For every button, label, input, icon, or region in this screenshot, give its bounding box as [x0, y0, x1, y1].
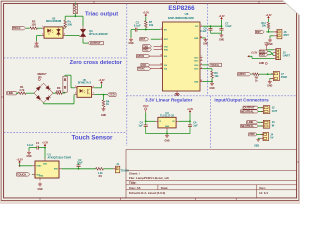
wire LINE to J3 — [258, 121, 264, 123]
svg-text:Rev:: Rev: — [259, 186, 266, 190]
svg-text:GND: GND — [101, 115, 106, 117]
svg-text:GND: GND — [194, 81, 199, 83]
svg-text:GND: GND — [39, 175, 44, 177]
wire opto emitter to node — [94, 94, 103, 96]
svg-text:AT42QT1010-TSHR: AT42QT1010-TSHR — [48, 156, 72, 160]
wire TXD cross to pin3 — [268, 51, 270, 53]
ground below J6 — [269, 38, 271, 40]
svg-text:RST: RST — [284, 33, 290, 37]
wire IO14 to TOUCH label — [203, 64, 209, 66]
svg-text:VDD: VDD — [249, 133, 254, 136]
global label NEUTRAL conn2 — [241, 124, 259, 127]
svg-text:6: 6 — [64, 26, 65, 28]
border tick bottom 1 — [39, 198, 41, 201]
pin stub U2 pin2 — [42, 35, 44, 37]
wire U1 SNS to R4 — [62, 168, 96, 170]
wire R7 to EN node — [145, 28, 147, 30]
connector J2 body — [263, 106, 270, 114]
bridge rectifier D1 diamond — [34, 83, 53, 103]
svg-text:IO0: IO0 — [164, 56, 167, 58]
svg-text:200: 200 — [68, 22, 73, 26]
title block line 3 — [126, 184, 297, 186]
U2 LED symbol — [48, 29, 51, 32]
bridge pin1 marker — [38, 78, 40, 80]
wire TRIAC to chip — [150, 68, 163, 70]
wire ZCD to chip — [149, 64, 162, 66]
global label ZCD — [107, 93, 116, 96]
diode pair D2 body — [63, 76, 67, 92]
wire NEUTRAL to J3 — [258, 125, 264, 127]
section divider horizontal esp/regulator (y=95.8) — [127, 95, 297, 97]
svg-text:0.1uF: 0.1uF — [200, 30, 207, 33]
pin stub U1 right — [59, 168, 62, 170]
svg-text:NEUTRAL: NEUTRAL — [241, 109, 254, 113]
pin stub EN — [160, 29, 162, 31]
svg-text:Size: A5: Size: A5 — [129, 186, 141, 190]
wire U2 pin4 to gate — [65, 35, 79, 37]
svg-text:VCC: VCC — [143, 104, 149, 108]
junction gnd rail — [166, 133, 168, 135]
svg-text:GND: GND — [174, 94, 179, 96]
wire R2 to U2 pin1 — [37, 27, 41, 29]
wire bridge to R3 — [53, 92, 56, 94]
svg-text:4.7k: 4.7k — [19, 88, 25, 92]
svg-text:19: 19 — [200, 37, 202, 39]
connector J7 body — [273, 71, 279, 80]
ground below U1 — [39, 182, 41, 184]
svg-text:Id: 1/1: Id: 1/1 — [259, 191, 268, 195]
svg-text:5V: 5V — [270, 135, 273, 139]
wire RXD cross to pin2 — [268, 54, 270, 56]
sheet border inner — [4, 4, 297, 198]
ground right of U6 — [205, 38, 207, 40]
border tick bottom 4 — [235, 198, 237, 201]
svg-text:6: 6 — [201, 59, 202, 61]
wire opto collector to +3.3V — [94, 87, 101, 89]
svg-text:ESP8266: ESP8266 — [168, 5, 195, 12]
wire U3 gnd to rail — [166, 130, 168, 133]
outside page bottom strip — [0, 201, 300, 204]
resistor R8 — [211, 71, 214, 78]
svg-text:BT1xA-600CW: BT1xA-600CW — [89, 32, 108, 36]
svg-text:3.3V Linear Regulator: 3.3V Linear Regulator — [145, 98, 192, 103]
resistor R2 — [30, 27, 37, 30]
global label GPIO0 conn — [238, 73, 251, 76]
global label TRIAC — [12, 27, 25, 30]
svg-text:GPIO0: GPIO0 — [137, 56, 145, 58]
global label TXD esp — [143, 45, 152, 48]
svg-text:OUTPUT: OUTPUT — [244, 106, 255, 110]
global label RST conn — [255, 30, 264, 33]
pin stub U1 bottom — [39, 178, 41, 180]
wire node to C3 — [137, 29, 146, 31]
ground below C3 — [130, 38, 132, 40]
svg-text:ZCD: ZCD — [109, 93, 114, 97]
svg-text:4.7k: 4.7k — [56, 89, 62, 93]
svg-text:GND: GND — [128, 43, 133, 45]
svg-text:TOUCH: TOUCH — [17, 172, 26, 176]
bridge diode 2 — [46, 86, 50, 90]
svg-text:ESP-WROOM-02D: ESP-WROOM-02D — [168, 16, 195, 20]
ground below regulator — [166, 134, 168, 136]
wire +3.3V to R11 — [268, 19, 270, 22]
separator line horizontal (y=149.4) — [126, 148, 297, 150]
section divider horizontal triac/zerocross (y=57.9) — [4, 57, 127, 59]
wire RXD to chip — [154, 49, 163, 51]
resistor R9 — [253, 73, 260, 76]
global label RST esp — [140, 38, 149, 41]
svg-text:Touch Sensor: Touch Sensor — [72, 134, 113, 141]
U2 triac symbol — [57, 29, 61, 32]
connector J4 body — [263, 132, 269, 140]
svg-text:9: 9 — [161, 48, 162, 50]
bridge diode 3 — [36, 95, 40, 99]
triac Q1 — [80, 29, 86, 33]
wire node to R6 — [103, 95, 105, 100]
svg-text:3: 3 — [93, 93, 94, 95]
svg-text:RXD: RXD — [143, 49, 148, 52]
wire bridge bottom to opto cathode — [43, 103, 45, 104]
svg-text:TRIAC: TRIAC — [138, 68, 145, 71]
svg-text:RXD: RXD — [260, 53, 266, 57]
svg-text:10k: 10k — [149, 23, 154, 27]
svg-text:D1: D1 — [38, 75, 42, 79]
svg-text:Date:: Date: — [161, 186, 169, 190]
svg-text:7: 7 — [201, 56, 202, 58]
wire J4 pin2 to gnd — [258, 137, 261, 139]
wire TRIAC to R2 — [26, 27, 30, 29]
resistor R3 — [56, 92, 62, 95]
global label OUTPUT conn — [243, 106, 259, 109]
svg-text:2: 2 — [42, 34, 43, 36]
junction C2 node — [78, 168, 80, 170]
wire GPIO0 to R9 — [251, 73, 252, 75]
svg-text:5: 5 — [201, 64, 202, 66]
svg-text:IO12: IO12 — [194, 58, 198, 60]
global label TOUCH left — [17, 173, 30, 176]
wire OUTPUT to J2 — [258, 107, 264, 109]
wire Rs to junction — [64, 16, 66, 20]
svg-text:GND: GND — [194, 38, 199, 40]
wire node to ZCD label — [104, 94, 108, 96]
wire J6 pin2 to gnd — [270, 35, 274, 37]
svg-text:120: 120 — [31, 23, 36, 27]
ground below U2 — [36, 41, 38, 43]
junction C8 top — [210, 25, 212, 27]
global label LINE — [7, 92, 18, 95]
svg-text:RST: RST — [256, 31, 261, 34]
svg-text:TXD: TXD — [164, 46, 168, 48]
ground below R8 — [211, 82, 213, 84]
svg-text:GND: GND — [26, 156, 31, 158]
junction ZCD node — [103, 94, 105, 96]
wire R1 to bridge — [26, 92, 34, 94]
pin stub U1 left top — [33, 165, 35, 167]
resistor R4 — [96, 168, 104, 171]
svg-text:GPIO0: GPIO0 — [238, 73, 246, 76]
section divider vertical right (x=210.5) — [210, 96, 212, 150]
pin stub U1 top — [44, 159, 46, 162]
pin stub U6 IO12 — [200, 57, 203, 59]
wire R11 to node — [268, 29, 270, 32]
wire 3V3 rail — [203, 25, 222, 27]
border tick top 3 — [93, 1, 95, 4]
wire node to J6 — [269, 31, 274, 33]
title block top line — [126, 170, 297, 172]
svg-text:10k: 10k — [214, 75, 219, 78]
title block line 2 — [126, 179, 297, 181]
svg-text:RST: RST — [140, 38, 145, 41]
wire junction to triac MT2 — [75, 15, 83, 17]
wire C1 right to node — [38, 147, 45, 149]
separator line vertical (x=126) — [125, 149, 127, 198]
svg-text:TLV1117-33: TLV1117-33 — [160, 114, 174, 118]
pin stub U2 pin4 — [63, 35, 65, 37]
svg-text:PGM: PGM — [281, 75, 287, 79]
svg-text:File: LampPCBV1.kicad_sch: File: LampPCBV1.kicad_sch — [129, 176, 170, 180]
svg-text:LINE: LINE — [7, 91, 13, 95]
svg-text:KiCad E.D.A. kicad (5.0.0): KiCad E.D.A. kicad (5.0.0) — [129, 191, 165, 195]
wire gnd to J5 pin1 — [267, 49, 274, 51]
svg-text:3: 3 — [161, 38, 162, 40]
global label +5V — [249, 133, 258, 136]
capacitor C3 — [134, 28, 136, 32]
wire U3 out to +3.3V — [179, 120, 190, 122]
wire +3.3V to R7 — [145, 17, 147, 21]
capacitor C7 — [221, 26, 223, 28]
svg-text:8: 8 — [161, 45, 162, 47]
svg-text:TOUCH: TOUCH — [210, 64, 219, 67]
pin stub U6 3V3 — [200, 25, 203, 27]
wire caps bottom — [211, 32, 222, 34]
bridge diode 4 — [46, 97, 50, 101]
capacitor C8 — [210, 26, 212, 28]
svg-text:IO15: IO15 — [194, 69, 198, 71]
svg-text:RXD: RXD — [164, 50, 169, 52]
svg-text:22uF: 22uF — [77, 162, 83, 165]
wire U2 pin6 to Rs — [64, 26, 66, 29]
svg-text:GND: GND — [164, 141, 169, 143]
wire R4 to J1 — [103, 168, 113, 170]
border tick left — [1, 96, 4, 98]
border tick bottom 2 — [120, 198, 122, 201]
wire TXD to chip — [154, 45, 163, 47]
svg-text:SFH617A-3: SFH617A-3 — [78, 82, 92, 85]
border tick top 2 — [258, 1, 260, 4]
pin stub U2 pin6 — [63, 27, 65, 29]
wire RV1 bottom — [74, 14, 76, 17]
wire regulator bottom rail — [146, 133, 190, 135]
ground below R6 — [103, 107, 105, 109]
opto-triac U2 body — [44, 27, 63, 38]
global label ZCD esp — [141, 63, 150, 66]
wire IO15 to R8 — [203, 68, 213, 70]
wire R3 to D2 bottom — [62, 92, 65, 94]
connector J6 body — [277, 29, 282, 38]
resistor R7 — [145, 21, 148, 28]
regulator U3 body — [158, 117, 176, 128]
opto U5 body — [77, 87, 92, 98]
border tick bottom 3 — [195, 198, 197, 201]
pin stub J6 2 — [274, 35, 277, 37]
pin stub U2 pin1 — [42, 27, 44, 29]
border tick right — [297, 161, 299, 163]
pin stub J1 — [113, 168, 115, 170]
svg-text:GND: GND — [37, 189, 42, 191]
svg-text:GND: GND — [219, 40, 224, 42]
U5 transistor symbol — [87, 89, 89, 94]
wire D2 top to opto anode — [64, 75, 66, 76]
wire RST to chip — [151, 38, 160, 40]
svg-text:IO2: IO2 — [164, 65, 167, 67]
section divider horizontal zerocross/touch (y=132.6) — [4, 132, 127, 134]
touch IC U1 body — [35, 161, 59, 178]
svg-text:GND: GND — [203, 43, 208, 45]
svg-text:Input/Output Connectors: Input/Output Connectors — [214, 98, 269, 103]
wire EN node to chip — [146, 29, 160, 31]
wire +3.3V top to U1 VDD — [44, 147, 46, 159]
svg-text:Zero cross detector: Zero cross detector — [70, 60, 123, 66]
section divider vertical mid (x=207.5) — [207, 4, 209, 96]
svg-text:TRIAC: TRIAC — [13, 26, 21, 30]
svg-text:NEUTRAL: NEUTRAL — [241, 124, 254, 128]
resistor R11 — [267, 22, 270, 29]
wire +3.3V down to rail — [221, 20, 223, 26]
global label NEUTRAL conn1 — [241, 110, 259, 113]
border tick top 1 — [176, 1, 178, 4]
ground below J4 — [256, 139, 260, 141]
pin stub U3 in — [155, 120, 158, 122]
junction C4 top — [145, 120, 147, 122]
global label RXD esp — [143, 48, 152, 51]
wire +5V to J4 — [256, 133, 263, 135]
wire R8 to gnd node — [211, 78, 213, 81]
wire VCC to U3 in — [145, 112, 147, 121]
svg-text:ZCD: ZCD — [141, 65, 146, 67]
svg-text:1: 1 — [75, 86, 76, 88]
ground below J7 — [269, 80, 271, 82]
pin stub U6 GND3 — [200, 81, 203, 83]
global label RXD conn — [259, 53, 268, 56]
svg-text:1: 1 — [201, 25, 202, 27]
svg-text:USB: USB — [254, 145, 259, 148]
global label GPIO0 esp — [137, 54, 150, 57]
svg-text:IN: IN — [272, 123, 275, 127]
svg-text:2: 2 — [161, 28, 162, 30]
svg-text:18: 18 — [200, 80, 202, 82]
svg-text:1uF: 1uF — [138, 124, 143, 127]
wire J7 pin2 to gnd — [270, 77, 271, 79]
junction snubber node — [75, 15, 77, 17]
capacitor C1 — [36, 146, 38, 150]
junction EN node — [145, 29, 147, 31]
svg-text:VDD: VDD — [43, 163, 48, 165]
pin stub U6 IO13 — [200, 60, 203, 62]
junction J7 node — [267, 73, 269, 75]
wire +3.3V to U1 pin — [19, 164, 21, 166]
wire U2 pin2 to GND — [37, 35, 42, 37]
wire +3.3V to J5 pin4 — [249, 55, 252, 57]
svg-text:SYNC: SYNC — [36, 166, 42, 168]
pin stub U3 gnd — [166, 128, 168, 130]
pin stub U6 IO15 — [200, 68, 203, 70]
junction 3V3 rail end — [221, 25, 223, 27]
pin stubs U5 left — [75, 87, 77, 89]
svg-text:12: 12 — [160, 55, 162, 57]
pin stub U1 left bottom — [33, 173, 35, 175]
pin stub J6 1 — [274, 31, 277, 33]
svg-text:1uF: 1uF — [193, 124, 198, 127]
title block col rev — [256, 185, 258, 198]
resistor Rs 200 — [64, 20, 67, 27]
pin stubs U5 right — [92, 87, 95, 89]
svg-text:IO13: IO13 — [194, 60, 198, 62]
sheet border outer — [1, 1, 299, 200]
svg-text:Sheet: /: Sheet: / — [129, 172, 140, 176]
global label LINE conn — [247, 121, 258, 124]
svg-text:UART: UART — [283, 54, 291, 58]
svg-text:MOC3063M: MOC3063M — [46, 19, 62, 23]
ground below U6 — [176, 92, 178, 94]
svg-text:1.0uF: 1.0uF — [225, 25, 232, 28]
ground left of C1 — [28, 151, 30, 153]
svg-text:+3.3V: +3.3V — [251, 51, 258, 54]
svg-text:3V3: 3V3 — [195, 26, 198, 28]
svg-text:Triac output: Triac output — [85, 11, 118, 17]
svg-text:1: 1 — [42, 26, 43, 28]
svg-text:GND: GND — [209, 88, 214, 90]
global label TOUCH esp — [208, 63, 221, 66]
junction C6 top — [189, 120, 191, 122]
wire NEUTRAL to J2 — [258, 110, 264, 112]
resistor R6 — [102, 100, 105, 107]
svg-text:2: 2 — [75, 93, 76, 95]
svg-text:LINE: LINE — [247, 120, 253, 124]
section divider vertical left (x=126.8) — [126, 4, 128, 146]
svg-text:0.1uF: 0.1uF — [27, 144, 34, 147]
pin stub U6 GND right — [200, 37, 203, 39]
ground below C7 — [221, 33, 223, 35]
wire GND3 to node — [203, 81, 213, 83]
connector J5 body — [276, 49, 281, 60]
wire triac MT1 to OUTPUT — [82, 39, 84, 43]
svg-text:GND: GND — [267, 85, 272, 87]
wire TOUCH to U1 — [31, 173, 34, 175]
wire R9 to J7 — [259, 73, 273, 75]
svg-text:Title:: Title: — [129, 181, 137, 185]
svg-text:GND: GND — [165, 126, 170, 128]
global label TRIAC esp — [137, 67, 150, 70]
wire C3 to gnd — [131, 29, 135, 31]
capacitor C2 — [77, 164, 81, 166]
pin stub U6 bottom — [176, 90, 178, 93]
connector J1 body — [115, 166, 119, 173]
varistor RV1 body — [73, 4, 77, 13]
wire GPIO0 to chip — [148, 55, 162, 57]
resistor R1 — [18, 92, 26, 95]
title block line 4 — [126, 189, 297, 191]
capacitor C6 — [189, 121, 191, 125]
wire RV1 top to frame — [74, 2, 76, 4]
wire gnd pin right — [203, 37, 206, 39]
global label OUTPUT — [88, 41, 104, 44]
svg-text:13: 13 — [160, 64, 162, 66]
pin stub U3 out — [176, 120, 179, 122]
svg-text:10k: 10k — [262, 24, 267, 27]
svg-text:0.1uF: 0.1uF — [134, 23, 141, 27]
connector J3 body — [263, 120, 270, 128]
U5 LED symbol — [80, 89, 82, 92]
